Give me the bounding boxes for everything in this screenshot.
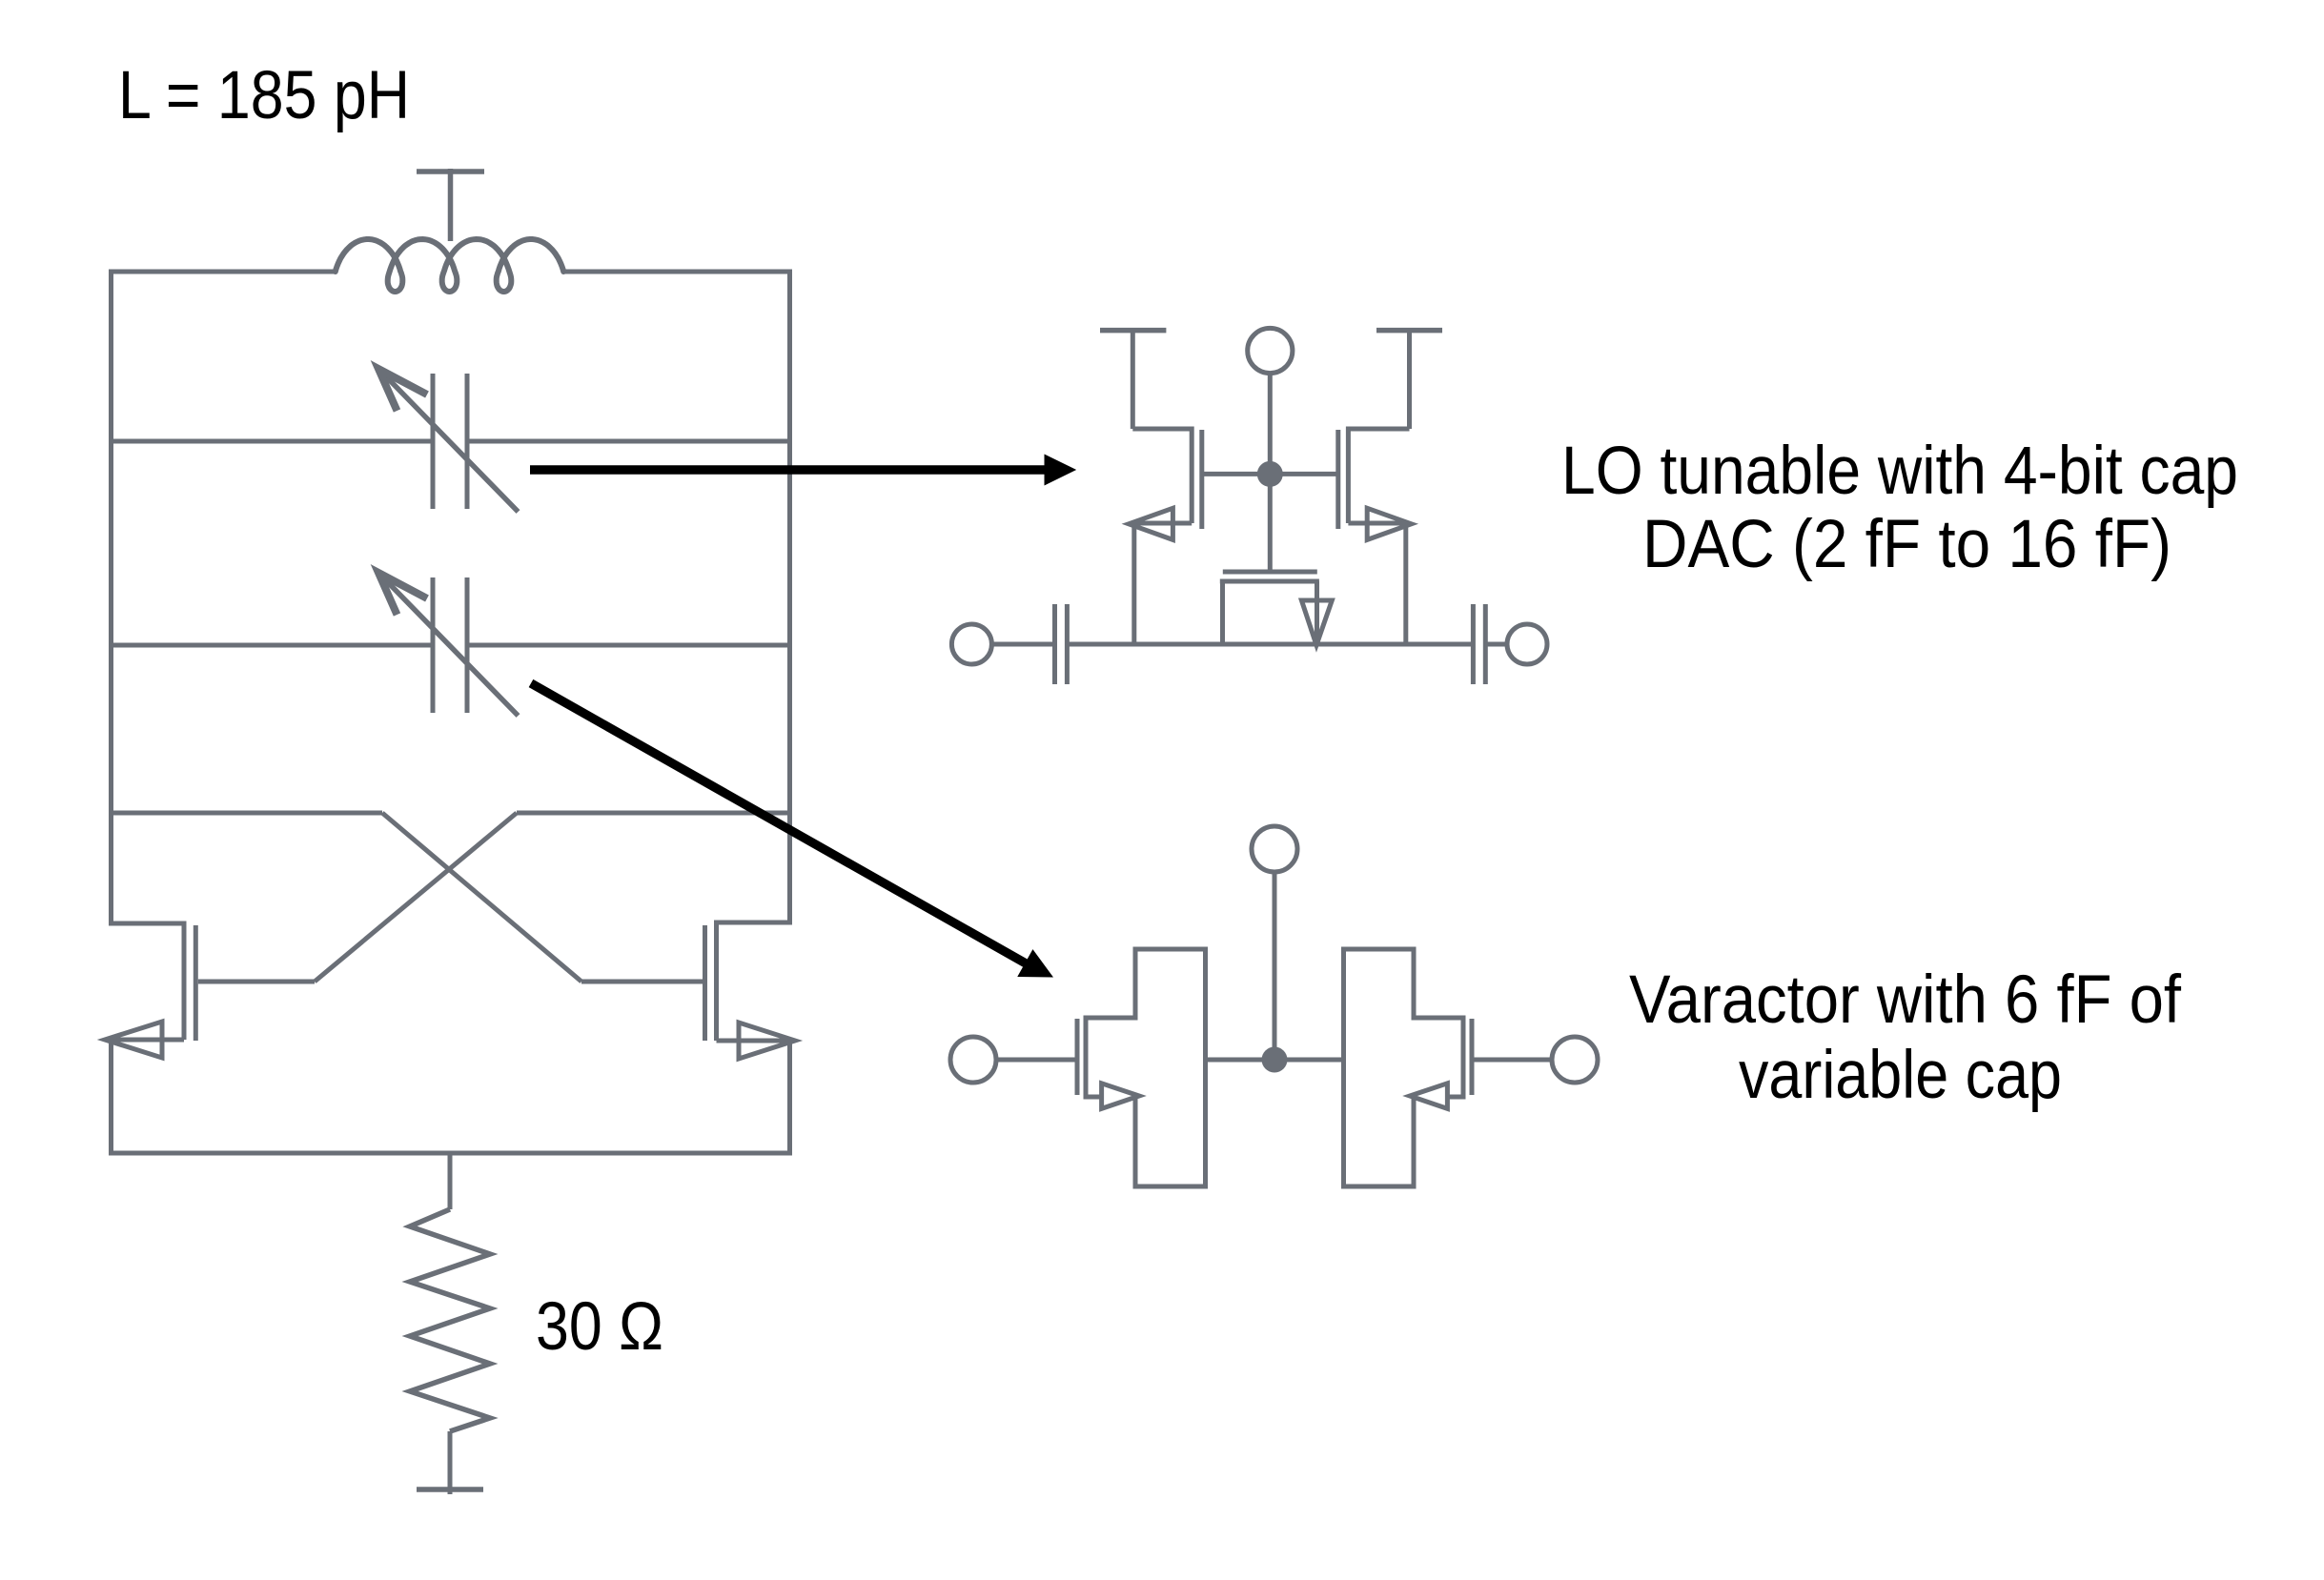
transistor M2 (right PMOS of DAC): [1348, 427, 1409, 432]
varactor cell: right terminal circle: [1552, 1037, 1598, 1083]
varactor C1 node wires: [112, 439, 434, 444]
svg-text:variable cap: variable cap: [1739, 1038, 2062, 1113]
svg-text:L = 185 pH: L = 185 pH: [118, 58, 410, 133]
svg-text:DAC (2 fF to 16 fF): DAC (2 fF to 16 fF): [1642, 507, 2171, 582]
svg-text:LO tunable with 4-bit cap: LO tunable with 4-bit cap: [1561, 434, 2238, 509]
cap DAC: left supply T: [1100, 328, 1166, 334]
svg-text:30 Ω: 30 Ω: [536, 1289, 663, 1365]
varactor C1 plates: [431, 374, 436, 509]
wire: top rail left of inductor: [109, 270, 336, 274]
varactor V2 (right MOS varactor): [1472, 1058, 1554, 1063]
transistor Q2 (right NMOS): [717, 921, 793, 925]
varactor C2 adjust arrow: [380, 575, 519, 716]
cap DAC: top terminal circle: [1248, 328, 1293, 373]
capacitor Ca (left coupling cap): [1052, 604, 1057, 684]
varactor cell: mid node wire: [1206, 1058, 1344, 1063]
cross-couple wire X left diagonal: [382, 813, 581, 982]
node: center junction dot: [1257, 461, 1283, 487]
varactor V1 (left MOS varactor): [996, 1058, 1077, 1063]
cap DAC: right terminal circle: [1507, 624, 1547, 664]
cap DAC: left terminal circle: [951, 624, 991, 664]
varactor C1 adjust arrow: [380, 371, 519, 512]
cap DAC: right supply T: [1376, 328, 1442, 334]
inductor L1 (185 pH) coil: [336, 239, 563, 292]
wire: tail rail: [109, 1151, 792, 1156]
transistor M3 (center switch, sideways): [1223, 570, 1317, 575]
supply terminal T bar above inductor: [417, 169, 484, 174]
wire: top rail right of inductor: [563, 270, 792, 274]
cross-coupled pair drain node wires: [112, 811, 383, 816]
ground terminal bar: [417, 1487, 483, 1492]
cap DAC: center control stem: [1268, 374, 1273, 572]
node: varactor junction dot: [1262, 1047, 1288, 1073]
callout arrow to cap DAC detail: [530, 465, 1047, 474]
varactor cell: left terminal circle: [950, 1037, 996, 1083]
cross-couple wire X right diagonal: [315, 813, 517, 982]
resistor R1 30 ohm: [448, 1153, 453, 1209]
wire: left tank rail: [109, 270, 113, 926]
varactor C2 plates: [431, 577, 436, 713]
cap DAC: bottom node wire: [991, 642, 1054, 647]
svg-text:Varactor with 6 fF of: Varactor with 6 fF of: [1629, 962, 2181, 1038]
transistor M1 (left PMOS of DAC): [1132, 427, 1192, 432]
wire: right tank rail: [787, 270, 792, 925]
transistor Q1 (left NMOS): [109, 922, 184, 926]
callout arrow to varactor detail: [531, 683, 1027, 964]
varactor cell: top terminal circle: [1252, 826, 1297, 872]
cap DAC: gate node wire: [1202, 472, 1338, 476]
varactor cell: center stem: [1273, 872, 1277, 1060]
capacitor Cb (right coupling cap): [1471, 604, 1476, 684]
varactor C2 node wires: [112, 643, 434, 648]
